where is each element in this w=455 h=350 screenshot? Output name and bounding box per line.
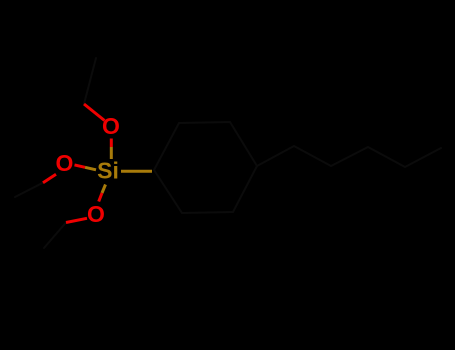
wire: pentyl chain from ring (257, 146, 441, 167)
bond Si-O top (olive half) (110, 147, 113, 159)
bond O-C left ethoxy (red) (43, 174, 56, 183)
bond Si-C right (olive) (121, 170, 152, 173)
svg-text:Si: Si (97, 158, 119, 184)
svg-text:O: O (102, 113, 120, 139)
bond O-C bottom ethoxy (red) (66, 218, 87, 222)
bond O-C top ethoxy (red) (84, 104, 105, 121)
svg-text:O: O (87, 201, 105, 227)
bond Si-O left (red half) (75, 165, 86, 167)
wire: ethyl C2 of left ethoxy (15, 183, 43, 197)
svg-text:O: O (56, 150, 74, 176)
wire: ethyl C2 of top ethoxy (84, 58, 96, 104)
bond Si-O bottom (red half) (99, 193, 102, 202)
wire: carbon skeleton ring C1-C6 (154, 122, 257, 213)
bond Si-O top (red half) (110, 139, 113, 148)
wire: ethyl C2 of bottom ethoxy (44, 223, 66, 249)
bond Si-O bottom (olive half) (102, 185, 106, 194)
bond Si-O left (olive half) (85, 167, 96, 170)
